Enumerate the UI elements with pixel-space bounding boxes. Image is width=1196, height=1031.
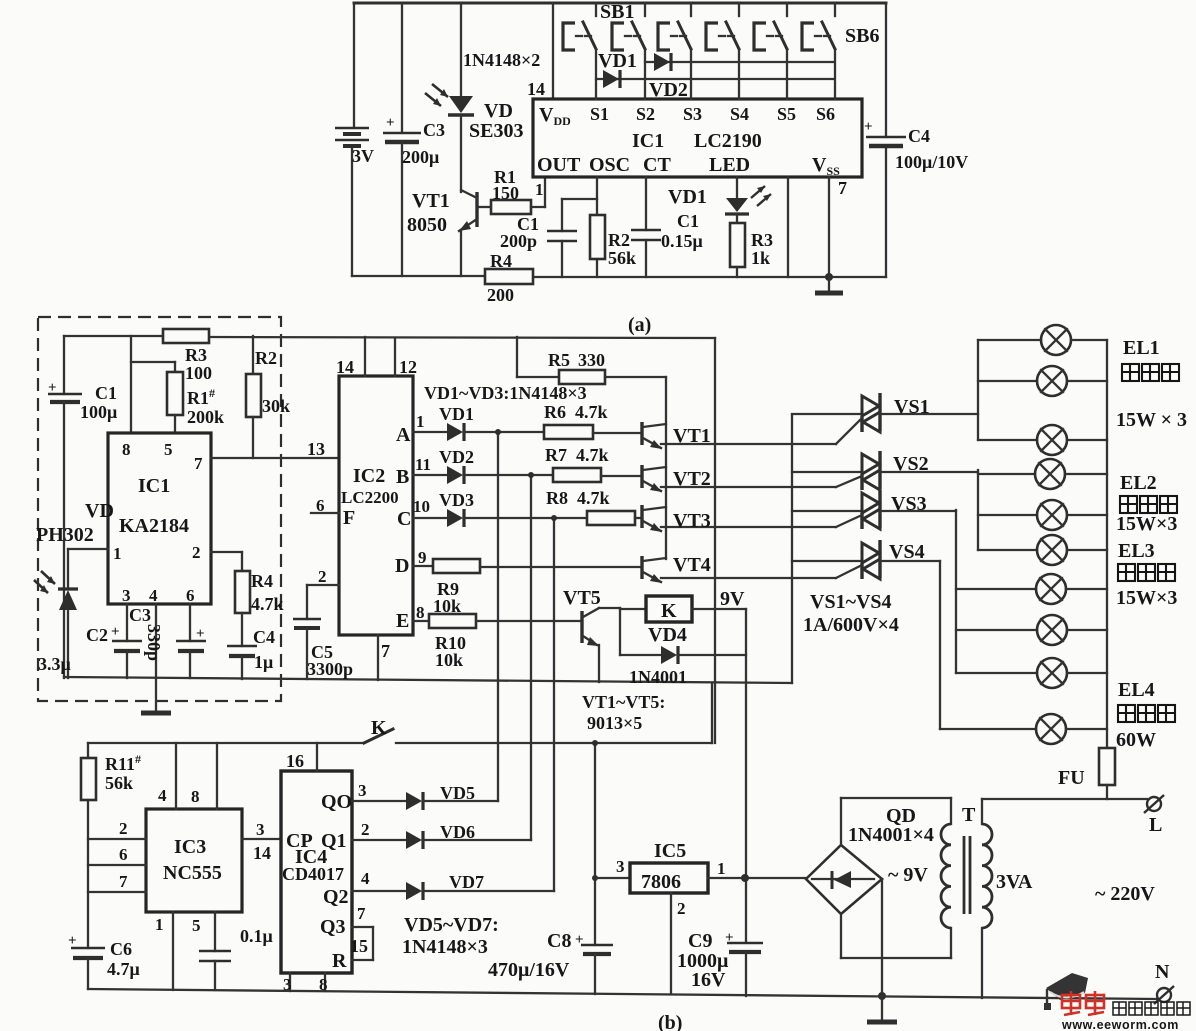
svg-text:7: 7 (838, 178, 847, 198)
resistor R2 30k (246, 336, 290, 458)
svg-text:3: 3 (616, 857, 625, 876)
transistor VT1 (642, 422, 836, 449)
photodiode VD PH302 (34, 500, 114, 678)
lamp EL3-3 (956, 658, 1107, 688)
svg-text:VD4: VD4 (648, 624, 687, 646)
wire pin12 (394, 338, 396, 376)
svg-text:12: 12 (399, 357, 417, 377)
svg-text:9013×5: 9013×5 (587, 713, 642, 733)
svg-text:1: 1 (113, 544, 122, 563)
svg-text:www.eeworm.com: www.eeworm.com (1061, 1018, 1179, 1031)
lamp EL1-2 (978, 366, 1107, 396)
svg-text:4: 4 (149, 586, 158, 605)
svg-text:1: 1 (416, 412, 425, 431)
svg-text:2: 2 (318, 567, 327, 586)
wire collector bus (665, 377, 667, 559)
resistor R4 200 (series in bottom rail) (485, 251, 533, 305)
svg-text:+: + (196, 626, 205, 642)
svg-text:D: D (395, 555, 409, 577)
svg-text:15W×3: 15W×3 (1116, 513, 1177, 535)
svg-text:~ 9V: ~ 9V (888, 864, 928, 886)
svg-text:3300p: 3300p (307, 659, 353, 679)
row B: pin11, diode VD2(b), resistor R7 4.7k (413, 445, 641, 484)
wire top rail (a) (354, 2, 886, 5)
svg-text:4.7k: 4.7k (576, 445, 609, 465)
svg-text:VD: VD (484, 100, 513, 122)
capacitor C3 200u (383, 3, 445, 276)
svg-text:0.1μ: 0.1μ (240, 926, 273, 946)
svg-text:VS1: VS1 (894, 396, 930, 418)
svg-text:1μ: 1μ (254, 652, 273, 672)
svg-text:LED: LED (709, 154, 750, 176)
svg-text:VD3: VD3 (439, 490, 474, 510)
svg-text:R3: R3 (185, 345, 207, 365)
wire pin4 (175, 743, 177, 809)
svg-text:7: 7 (194, 454, 203, 473)
wire unlabeled pin column (787, 177, 789, 277)
svg-text:+: + (68, 933, 77, 949)
svg-text:1k: 1k (751, 248, 770, 268)
bridge rectifier QD 1N4001x4 (806, 805, 934, 914)
IC5 7806 regulator (595, 840, 806, 994)
capacitor C2 3.3u (pin3) (38, 604, 142, 678)
resistor R3 100 (163, 329, 212, 383)
svg-text:100: 100 (185, 363, 212, 383)
svg-text:11: 11 (415, 455, 431, 474)
svg-text:56k: 56k (105, 773, 133, 793)
terminal N (1154, 961, 1174, 1004)
diode VD7 (Q2) (352, 869, 554, 900)
svg-text:EL2: EL2 (1120, 472, 1157, 494)
svg-text:10: 10 (413, 497, 430, 516)
svg-text:+: + (111, 624, 120, 640)
svg-text:4: 4 (361, 869, 370, 888)
svg-text:VD5: VD5 (440, 783, 475, 803)
svg-text:VD2: VD2 (649, 79, 688, 101)
pin7 stub (88, 891, 146, 893)
svg-text:2: 2 (119, 819, 128, 838)
svg-text:IC5: IC5 (654, 840, 686, 862)
svg-text:200: 200 (487, 285, 514, 305)
svg-text:8: 8 (416, 603, 425, 622)
label incandescent lamp (bai zhi deng) (1118, 705, 1175, 722)
diode VD2 (a) (649, 53, 688, 101)
wire pin1 (172, 912, 174, 990)
capacitor on pin6 (176, 604, 206, 678)
svg-text:8: 8 (122, 440, 131, 459)
triac VS2 (792, 451, 978, 490)
resistor R11# 56k (81, 743, 141, 948)
svg-text:VS4: VS4 (889, 541, 925, 563)
svg-text:VT1~VT5:: VT1~VT5: (582, 692, 665, 712)
svg-text:~ 220V: ~ 220V (1095, 883, 1155, 905)
svg-text:VD5~VD7:: VD5~VD7: (404, 914, 499, 936)
wire bridge AC top route (840, 798, 842, 845)
svg-text:S6: S6 (816, 104, 835, 124)
svg-text:C3: C3 (129, 605, 151, 625)
wire EL4 feed vertical (939, 561, 941, 729)
wire pin7 to IC2 pin13 (211, 457, 339, 459)
svg-text:330: 330 (578, 350, 605, 370)
IC1 LC2190 box (533, 99, 862, 177)
svg-text:R6: R6 (544, 402, 566, 422)
relay K with diode VD4 (620, 596, 746, 687)
wire pin16 (316, 743, 318, 771)
switch K (88, 717, 712, 743)
svg-text:3: 3 (256, 820, 265, 839)
svg-text:60W: 60W (1116, 729, 1156, 751)
wire bridge DC minus to rail (881, 879, 883, 996)
diode VD6 (Q1) (352, 820, 531, 849)
resistor R1# 200k (pin5) (131, 336, 224, 433)
svg-text:R5: R5 (548, 350, 570, 370)
wire Vss pin 7 (828, 177, 830, 277)
svg-text:1N4001: 1N4001 (629, 667, 687, 687)
wire 9V vertical (714, 338, 716, 743)
svg-text:Q3: Q3 (320, 916, 346, 938)
wire primary bottom to rail (981, 928, 983, 998)
svg-text:VS2: VS2 (893, 453, 929, 475)
svg-text:6: 6 (186, 586, 195, 605)
svg-text:C2: C2 (86, 625, 108, 645)
wire OR-join column VD2/VD6 (530, 475, 532, 840)
wire EL1 feed vertical (977, 340, 979, 440)
svg-text:5: 5 (164, 440, 173, 459)
transistor VT4 (642, 554, 836, 583)
svg-text:IC1: IC1 (138, 475, 170, 497)
svg-text:PH302: PH302 (36, 524, 94, 546)
diode VD5 (Q0) (352, 781, 498, 810)
svg-text:VD1: VD1 (668, 186, 707, 208)
svg-text:VT1: VT1 (412, 190, 450, 212)
svg-text:3.3μ: 3.3μ (38, 654, 71, 674)
svg-text:OSC: OSC (589, 154, 630, 176)
svg-text:3V: 3V (352, 146, 374, 166)
battery GB 3V (335, 128, 374, 166)
svg-text:SB1: SB1 (600, 1, 634, 23)
svg-text:3: 3 (358, 781, 367, 800)
lamp EL2-1 (978, 459, 1107, 489)
svg-text:CT: CT (643, 154, 671, 176)
wire diode row lower (596, 78, 833, 80)
IC3 NC555 box (146, 809, 242, 912)
svg-text:C4: C4 (908, 126, 930, 146)
svg-text:IC2: IC2 (353, 465, 385, 487)
wire left rail (a) (353, 3, 355, 127)
lamp EL3-1 (956, 574, 1107, 604)
svg-text:8050: 8050 (407, 214, 447, 236)
wire OR-join column VD1/VD5 (497, 432, 499, 801)
dashed enclosure (38, 317, 281, 701)
svg-text:14: 14 (253, 843, 271, 863)
svg-text:(b): (b) (658, 1012, 682, 1031)
capacitor C1 100u (48, 336, 117, 678)
wire primary top to L (981, 799, 983, 824)
wire bottom pins 3,8 (289, 973, 291, 991)
pushbutton SB4 (706, 3, 739, 99)
svg-text:7: 7 (357, 904, 366, 923)
wire rail-to-Kwire link (711, 683, 713, 743)
triac VS4 (792, 540, 940, 579)
svg-text:200k: 200k (187, 407, 224, 427)
wire bottom rail (mains N) (88, 989, 1157, 999)
svg-text:R4: R4 (251, 571, 273, 591)
wire bottom rail (a) (352, 275, 485, 277)
row C: pin10, diode VD3(b), resistor R8 4.7k (413, 488, 641, 527)
wire pin1 OUT (544, 177, 546, 207)
svg-text:1N4148×2: 1N4148×2 (463, 50, 540, 70)
wire R5 takeoff (516, 337, 518, 377)
svg-text:VT4: VT4 (673, 554, 711, 576)
svg-text:B: B (396, 466, 409, 488)
triac VS1 (792, 393, 978, 444)
pin6 stub (88, 864, 146, 866)
svg-text:EL4: EL4 (1118, 679, 1155, 701)
svg-text:C8: C8 (547, 930, 571, 952)
svg-text:4.7k: 4.7k (251, 594, 284, 614)
svg-text:EL3: EL3 (1118, 540, 1155, 562)
wire EL2 feed vertical (977, 470, 979, 550)
svg-text:VD6: VD6 (440, 822, 475, 842)
svg-text:E: E (396, 610, 409, 632)
svg-text:LC2190: LC2190 (694, 130, 762, 152)
label green-group (lv se zu) (1120, 496, 1177, 513)
svg-text:KA2184: KA2184 (119, 515, 189, 537)
label blue-group (lan se zu) (1118, 564, 1175, 581)
svg-text:6: 6 (316, 496, 325, 515)
wire 9V(raw) vertical to C9 (745, 609, 747, 941)
svg-text:5: 5 (192, 916, 201, 935)
svg-text:R2: R2 (255, 348, 277, 368)
lamp EL2-3 (978, 535, 1107, 565)
lamp EL4 (940, 714, 1107, 744)
svg-text:NC555: NC555 (163, 862, 222, 884)
svg-text:1: 1 (155, 915, 164, 934)
pushbutton SB1 (563, 3, 596, 99)
svg-text:C: C (397, 508, 411, 530)
svg-text:IC3: IC3 (174, 836, 206, 858)
label red-group (hong se zu) (1122, 364, 1179, 381)
svg-text:R8: R8 (546, 488, 568, 508)
svg-text:LC2200: LC2200 (341, 488, 399, 507)
svg-text:470μ/16V: 470μ/16V (488, 959, 570, 981)
wire pin14 (364, 337, 366, 376)
svg-text:2: 2 (192, 543, 201, 562)
ground (b bottom) (867, 996, 897, 1022)
svg-text:K: K (371, 717, 387, 739)
svg-text:100μ: 100μ (80, 402, 117, 422)
svg-text:EL1: EL1 (1123, 337, 1160, 359)
svg-text:14: 14 (336, 357, 354, 377)
wire diode row upper (645, 61, 833, 63)
svg-text:2: 2 (677, 899, 686, 918)
svg-text:VT5: VT5 (563, 587, 601, 609)
pushbutton SB5 (754, 3, 787, 99)
svg-text:R7: R7 (545, 445, 567, 465)
svg-text:VD1~VD3:1N4148×3: VD1~VD3:1N4148×3 (424, 383, 587, 403)
transistor VT5 (563, 587, 620, 682)
terminal L (1144, 795, 1164, 836)
diode VD1 (a) (598, 50, 637, 88)
svg-text:4.7k: 4.7k (577, 488, 610, 508)
svg-text:N: N (1155, 961, 1170, 983)
capacitor 0.1u (pin5) (192, 912, 273, 990)
row D: pin9, resistor R9 10k (413, 548, 641, 616)
capacitor C6 4.7u (68, 933, 140, 989)
svg-text:3: 3 (122, 586, 131, 605)
svg-text:200p: 200p (500, 231, 537, 251)
capacitor C1 0.15u on CT (631, 177, 703, 277)
svg-text:100μ/10V: 100μ/10V (895, 152, 968, 172)
capacitor C4 100u/10V (864, 119, 968, 172)
svg-text:R3: R3 (751, 230, 773, 250)
watermark site name (CJK) (1113, 1002, 1190, 1015)
svg-text:SB6: SB6 (845, 25, 879, 47)
svg-text:C4: C4 (253, 627, 275, 647)
svg-text:16V: 16V (691, 969, 726, 991)
lamp EL2-2 (978, 500, 1107, 530)
svg-text:VD: VD (85, 500, 114, 522)
wire OSC column (596, 177, 598, 277)
lamp EL3-2 (956, 615, 1107, 645)
wire pin3 to CP (242, 838, 281, 840)
svg-text:4.7μ: 4.7μ (107, 959, 140, 979)
svg-text:2: 2 (361, 820, 370, 839)
capacitor C1 200p (500, 199, 597, 277)
svg-text:VD7: VD7 (449, 872, 484, 892)
svg-text:T: T (962, 804, 976, 826)
svg-text:K: K (661, 600, 677, 622)
svg-text:7806: 7806 (641, 871, 681, 893)
lamp EL1-1 (978, 325, 1107, 355)
svg-text:7: 7 (381, 641, 390, 661)
svg-text:C1: C1 (677, 211, 699, 231)
svg-text:9V: 9V (720, 588, 745, 610)
svg-text:Q2: Q2 (323, 886, 349, 908)
transistor VT3 (642, 505, 836, 532)
svg-text:10k: 10k (435, 650, 463, 670)
svg-text:CD4017: CD4017 (282, 864, 344, 884)
svg-text:56k: 56k (608, 248, 636, 268)
svg-text:FU: FU (1058, 767, 1085, 789)
capacitor C3 330p (pin4) (129, 604, 164, 678)
logo chongchong (red) (1062, 991, 1104, 1015)
svg-text:C1: C1 (95, 383, 117, 403)
svg-text:1: 1 (717, 859, 726, 878)
ground (a) (815, 273, 843, 293)
svg-text:16: 16 (286, 751, 304, 771)
transistor VT1 8050 (407, 190, 477, 276)
svg-text:15W×3: 15W×3 (1116, 587, 1177, 609)
wire 6V column (C8) (594, 743, 596, 945)
pushbutton SB6 (802, 3, 835, 99)
svg-text:14: 14 (527, 79, 545, 99)
svg-text:1: 1 (535, 180, 544, 199)
svg-text:S5: S5 (777, 104, 796, 124)
transistor VT2 (642, 465, 836, 492)
svg-text:4.7k: 4.7k (575, 402, 608, 422)
capacitor C5 3300p (pin2) (293, 585, 353, 679)
svg-text:R2: R2 (608, 230, 630, 250)
svg-text:13: 13 (307, 439, 325, 459)
LED VD SE303 (IR emitter diode) (425, 3, 523, 192)
wire pin14 VDD (552, 3, 554, 99)
svg-text:SE303: SE303 (469, 120, 523, 142)
svg-text:A: A (396, 424, 411, 446)
svg-text:7: 7 (119, 872, 128, 891)
svg-text:VT3: VT3 (673, 510, 711, 532)
svg-text:VS3: VS3 (891, 493, 927, 515)
svg-text:200μ: 200μ (402, 147, 439, 167)
capacitor C9 1000u/16V (677, 930, 763, 996)
svg-text:15: 15 (350, 936, 368, 956)
svg-text:1N4148×3: 1N4148×3 (402, 936, 488, 958)
Q3-R loop with pins 7,15 (350, 904, 373, 960)
svg-text:0.15μ: 0.15μ (661, 231, 703, 251)
wire pin7 bottom (377, 635, 379, 680)
svg-text:VS1~VS4: VS1~VS4 (810, 591, 892, 613)
wire common rail (b) (64, 677, 792, 683)
svg-text:C9: C9 (688, 930, 712, 952)
IC1 KA2184 box (108, 433, 211, 604)
IC4 CD4017 box (281, 771, 352, 973)
capacitor C8 470u/16V (488, 930, 613, 994)
resistor R1 150 (479, 167, 545, 214)
svg-text:+: + (386, 115, 395, 131)
svg-text:30k: 30k (262, 396, 290, 416)
svg-text:6: 6 (119, 845, 128, 864)
triac MT bus (791, 415, 793, 683)
svg-text:VT1: VT1 (673, 425, 711, 447)
svg-text:VT2: VT2 (673, 468, 711, 490)
svg-text:+: + (864, 119, 873, 135)
svg-text:150: 150 (492, 183, 519, 203)
svg-text:15W × 3: 15W × 3 (1116, 409, 1187, 431)
logo graduation cap (1044, 973, 1088, 1010)
resistor R4 4.7k + capacitor C4 1u (pin2) (211, 552, 284, 679)
svg-text:9: 9 (418, 548, 427, 567)
ground (b left) (141, 678, 171, 713)
fuse FU (1058, 748, 1115, 799)
svg-text:8: 8 (191, 787, 200, 806)
pin6 stub (311, 512, 339, 514)
wire lamp bus to fuse (1106, 340, 1108, 748)
row A: pin1, diode VD1(b), resistor R6 4.7k (413, 402, 641, 441)
svg-text:F: F (343, 507, 355, 529)
lamp EL1-3 (978, 425, 1107, 455)
svg-text:IC1: IC1 (632, 130, 664, 152)
resistor R5 330 (517, 350, 666, 384)
pushbutton SB2 (612, 3, 645, 99)
pushbutton SB3 (658, 3, 691, 99)
wire top supply (b) (64, 335, 163, 337)
svg-text:S2: S2 (636, 104, 655, 124)
LED VD1 indicator with R3 1k (668, 177, 773, 277)
pin2 stub (88, 838, 146, 840)
svg-text:C6: C6 (110, 939, 132, 959)
svg-text:R: R (332, 950, 347, 972)
IC2 LC2200 box (339, 376, 413, 635)
transformer T (941, 804, 1033, 928)
svg-text:R4: R4 (490, 251, 512, 271)
svg-text:S1: S1 (590, 104, 609, 124)
svg-text:VD1: VD1 (439, 404, 474, 424)
wire EL3 feed vertical (955, 510, 957, 673)
svg-text:VD2: VD2 (439, 447, 474, 467)
svg-text:VD1: VD1 (598, 50, 637, 72)
svg-text:S3: S3 (683, 104, 702, 124)
wire OR-join column VD3/VD7 (553, 518, 555, 891)
